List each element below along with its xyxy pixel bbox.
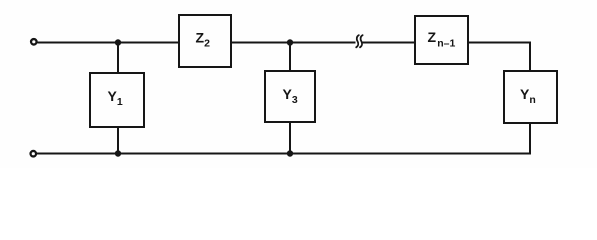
junction top at Y3 [287,39,293,45]
wire top-right corner drop to Yn [529,42,531,72]
wire top rail after break [363,42,416,44]
impedance Z2 box [179,15,231,67]
wire top rail middle segment [231,42,356,44]
wire Y3 top lead [289,43,291,72]
break mark right [360,35,363,47]
wire Y1 bottom lead [117,127,119,154]
input terminal top [31,39,37,45]
junction bottom at Y3 [287,150,293,156]
admittance Y1 box [90,73,144,127]
break mark left [356,35,359,47]
wire bottom rail [37,153,530,155]
wire top rail right segment [468,42,530,44]
impedance Zn-1 box [415,16,468,64]
wire Yn bottom lead [529,123,531,155]
wire Y3 bottom lead [289,122,291,154]
junction bottom at Y1 [115,150,121,156]
admittance Y3 box [265,71,315,122]
junction top at Y1 [115,39,121,45]
input terminal bottom [31,151,37,157]
wire Y1 top lead [117,43,119,74]
admittance Yn box [504,71,557,123]
wire top rail left segment [37,42,179,44]
